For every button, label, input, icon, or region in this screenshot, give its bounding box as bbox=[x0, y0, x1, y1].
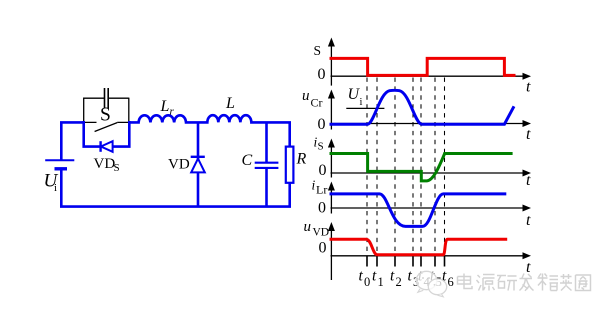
svg-text:r: r bbox=[170, 106, 175, 118]
svg-text:t: t bbox=[408, 268, 413, 285]
svg-text:6: 6 bbox=[448, 275, 454, 289]
char quan bbox=[576, 275, 591, 291]
diode VD triangle bbox=[191, 159, 205, 173]
diode VD cathode bar bbox=[191, 156, 205, 158]
svg-text:t: t bbox=[526, 172, 531, 189]
capacitor C branch wire lower bbox=[265, 169, 268, 206]
svg-text:0: 0 bbox=[318, 66, 326, 83]
main top wire with inductors Lr and L, corner to R bbox=[129, 115, 290, 146]
svg-text:t: t bbox=[526, 212, 531, 229]
svg-text:S: S bbox=[114, 162, 120, 174]
svg-text:0: 0 bbox=[319, 162, 327, 179]
plot1 y-axis arrow bbox=[328, 38, 335, 47]
plot2 y-axis arrow bbox=[328, 90, 335, 99]
char jing bbox=[538, 274, 559, 291]
svg-text:Cr: Cr bbox=[311, 96, 323, 110]
plot1 x-axis arrow bbox=[523, 73, 532, 80]
svg-text:u: u bbox=[304, 219, 312, 235]
svg-text:i: i bbox=[360, 97, 363, 108]
svg-text:t: t bbox=[526, 79, 531, 96]
svg-text:VD: VD bbox=[313, 226, 330, 238]
watermark wechat logo small bubble bbox=[428, 279, 446, 297]
bottom rail wire bbox=[61, 170, 289, 207]
svg-text:t: t bbox=[372, 268, 377, 285]
diode VDS loop wire bbox=[84, 121, 130, 147]
watermark wechat logo big bubble bbox=[416, 271, 437, 292]
svg-text:i: i bbox=[54, 182, 57, 194]
svg-text:L: L bbox=[225, 95, 235, 112]
svg-text:0: 0 bbox=[318, 116, 326, 133]
switch box outline (black) bbox=[84, 98, 129, 123]
plot2 x-axis arrow bbox=[523, 120, 532, 127]
uVD waveform (red) bbox=[330, 239, 508, 255]
char yuan bbox=[477, 275, 495, 291]
plot3 x-axis bbox=[331, 172, 525, 174]
svg-text:t: t bbox=[359, 268, 364, 285]
solid ticks below bottom axis bbox=[367, 257, 445, 267]
svg-text:Lr: Lr bbox=[316, 182, 327, 196]
capacitor C branch wire upper bbox=[265, 122, 268, 163]
svg-text:C: C bbox=[242, 152, 253, 169]
watermark text (approx CJK glyph strokes) bbox=[458, 274, 591, 291]
wire battery+ to box bbox=[61, 122, 83, 159]
svg-text:L: L bbox=[160, 98, 170, 115]
switch S blade bbox=[95, 123, 118, 132]
diode VDS cathode bar bbox=[99, 141, 101, 152]
svg-text:0: 0 bbox=[364, 275, 370, 289]
iLr waveform (blue) bbox=[330, 194, 507, 227]
capacitor C plates bbox=[255, 163, 279, 168]
plot5 x-axis arrow bbox=[523, 252, 532, 259]
plot4 y-axis arrow bbox=[328, 182, 335, 191]
iS waveform (green) bbox=[330, 154, 513, 181]
diode VDS triangle bbox=[101, 141, 113, 152]
diode VD branch wire bbox=[197, 122, 200, 206]
plot2 x-axis bbox=[331, 123, 525, 125]
Ui level line bbox=[346, 107, 384, 109]
svg-text:VD: VD bbox=[94, 156, 116, 172]
svg-text:S: S bbox=[100, 105, 111, 126]
plot3 y-axis bbox=[330, 144, 332, 178]
plot5 y-axis arrow bbox=[328, 222, 335, 231]
plot5 x-axis bbox=[331, 255, 525, 257]
watermark wechat logo small bubble eyes bbox=[434, 284, 436, 286]
plot5 y-axis bbox=[330, 228, 332, 280]
watermark wechat logo big bubble eyes bbox=[422, 277, 424, 279]
uCr waveform (blue) bbox=[330, 90, 515, 124]
svg-text:S: S bbox=[314, 43, 322, 58]
plot3 y-axis arrow bbox=[328, 139, 335, 148]
plot1 y-axis bbox=[330, 44, 332, 86]
svg-text:i: i bbox=[312, 178, 316, 193]
resistor R box bbox=[286, 147, 294, 183]
svg-text:0: 0 bbox=[318, 200, 326, 217]
char dian bbox=[458, 274, 473, 289]
svg-text:u: u bbox=[302, 88, 310, 104]
plot2 y-axis bbox=[330, 95, 332, 130]
char yan bbox=[497, 276, 517, 291]
svg-text:t: t bbox=[526, 126, 531, 143]
plot4 y-axis bbox=[330, 187, 332, 214]
plot4 x-axis bbox=[331, 207, 525, 209]
vertical dashed timing lines t0-t6 bbox=[367, 78, 445, 256]
svg-text:0: 0 bbox=[319, 240, 327, 257]
switch S contact segments bbox=[84, 121, 129, 123]
capacitor Cr plates (black, in box top edge) bbox=[105, 88, 109, 108]
svg-text:2: 2 bbox=[396, 275, 402, 289]
plot1 x-axis bbox=[331, 75, 525, 77]
svg-text:S: S bbox=[318, 141, 324, 153]
plot3 x-axis arrow bbox=[523, 170, 532, 177]
svg-text:R: R bbox=[296, 151, 307, 168]
svg-text:1: 1 bbox=[378, 275, 384, 289]
svg-text:t: t bbox=[390, 268, 395, 285]
svg-text:VD: VD bbox=[168, 157, 190, 173]
battery Ui long plate bbox=[45, 159, 74, 161]
battery Ui short plate bbox=[55, 167, 68, 170]
S waveform (red) bbox=[330, 58, 516, 75]
char ying bbox=[560, 274, 572, 291]
plot4 x-axis arrow bbox=[523, 205, 532, 212]
char fa bbox=[520, 274, 534, 291]
